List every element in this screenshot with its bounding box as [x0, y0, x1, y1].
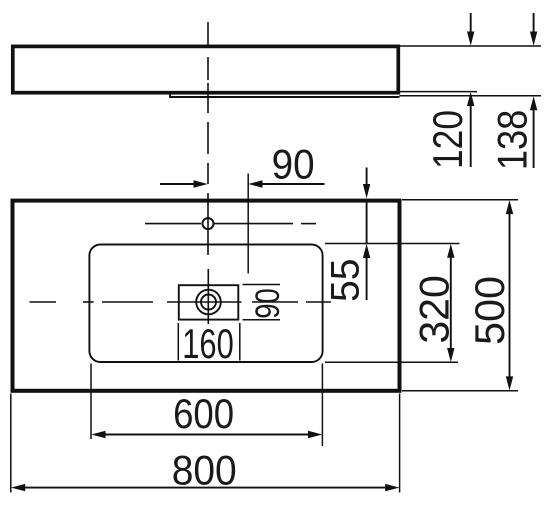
extension line 800 right — [399, 394, 401, 493]
svg-text:90: 90 — [272, 141, 315, 188]
extension line inner basin bottom right — [325, 361, 458, 363]
basin lip (side view) — [170, 94, 400, 98]
extension line bottom edge right — [402, 390, 518, 392]
svg-text:800: 800 — [172, 446, 237, 493]
extension line body bottom to 120 dim — [400, 91, 477, 93]
dimension 138 bottom arrow — [530, 96, 537, 168]
extension lines for 160 — [178, 323, 240, 361]
svg-text:160: 160 — [182, 320, 234, 367]
dimension 90 top line right part with left arrow — [248, 180, 324, 187]
extension line 600 right — [321, 364, 323, 447]
dimension 800 line and arrows — [11, 484, 399, 491]
svg-text:600: 600 — [173, 390, 234, 437]
svg-text:320: 320 — [411, 275, 458, 344]
dimension 55 bottom arrow — [363, 244, 370, 300]
inner basin outline — [89, 245, 322, 363]
drain outer circle — [196, 290, 221, 315]
extension line lip bottom to 138 dim — [400, 95, 542, 97]
top view outer outline — [13, 201, 400, 391]
dimension 600 line and arrows — [91, 431, 322, 438]
extension line inner basin top right — [325, 243, 460, 245]
extension lines for drain 90 — [243, 285, 281, 320]
drain inner circle — [201, 295, 216, 310]
dimension 90 top line left part with right arrow — [160, 180, 208, 187]
extension line 600 left — [90, 364, 92, 440]
dimension 55 top arrow — [363, 168, 370, 199]
dimension 120 top arrow — [467, 13, 474, 46]
svg-text:90: 90 — [249, 288, 287, 319]
dimension 120 bottom arrow — [467, 92, 474, 167]
dimension 320 line and arrows — [447, 244, 454, 362]
faucet hole — [203, 218, 214, 229]
horizontal centerline through faucet — [145, 223, 316, 225]
horizontal centerline basin axis — [30, 301, 332, 303]
extension line top edge right — [402, 199, 518, 201]
extension line top edge to 120/138 dims — [400, 45, 541, 47]
svg-text:120: 120 — [424, 110, 471, 169]
svg-text:138: 138 — [488, 110, 535, 171]
vertical centerline — [207, 22, 209, 324]
dimension 55 span line — [366, 203, 368, 244]
extension line for 90 dim — [247, 174, 249, 274]
side view basin outline — [13, 46, 399, 92]
dimension 500 line and arrows — [506, 200, 513, 391]
drain rectangle — [179, 285, 239, 319]
svg-text:55: 55 — [324, 259, 368, 303]
svg-text:500: 500 — [466, 276, 513, 345]
dimension 138 top arrow — [530, 13, 537, 46]
extension line 800 left — [10, 394, 12, 493]
